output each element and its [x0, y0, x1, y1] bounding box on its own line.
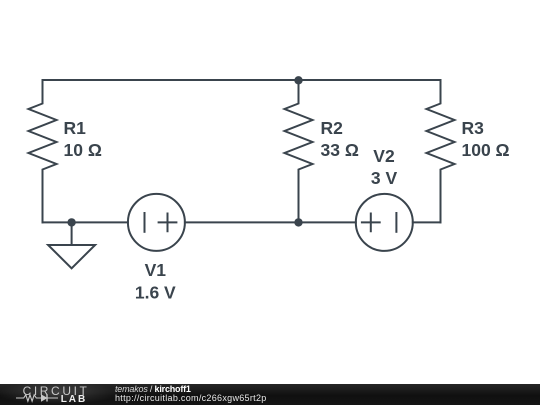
svg-text:V1: V1	[145, 260, 167, 280]
svg-text:V2: V2	[373, 146, 395, 166]
svg-text:3 V: 3 V	[371, 168, 398, 188]
svg-text:33 Ω: 33 Ω	[321, 140, 359, 160]
svg-text:1.6 V: 1.6 V	[135, 282, 176, 302]
svg-text:R3: R3	[462, 118, 485, 138]
svg-text:R2: R2	[321, 118, 344, 138]
svg-text:10 Ω: 10 Ω	[64, 140, 102, 160]
svg-text:100 Ω: 100 Ω	[462, 140, 510, 160]
svg-text:R1: R1	[64, 118, 87, 138]
